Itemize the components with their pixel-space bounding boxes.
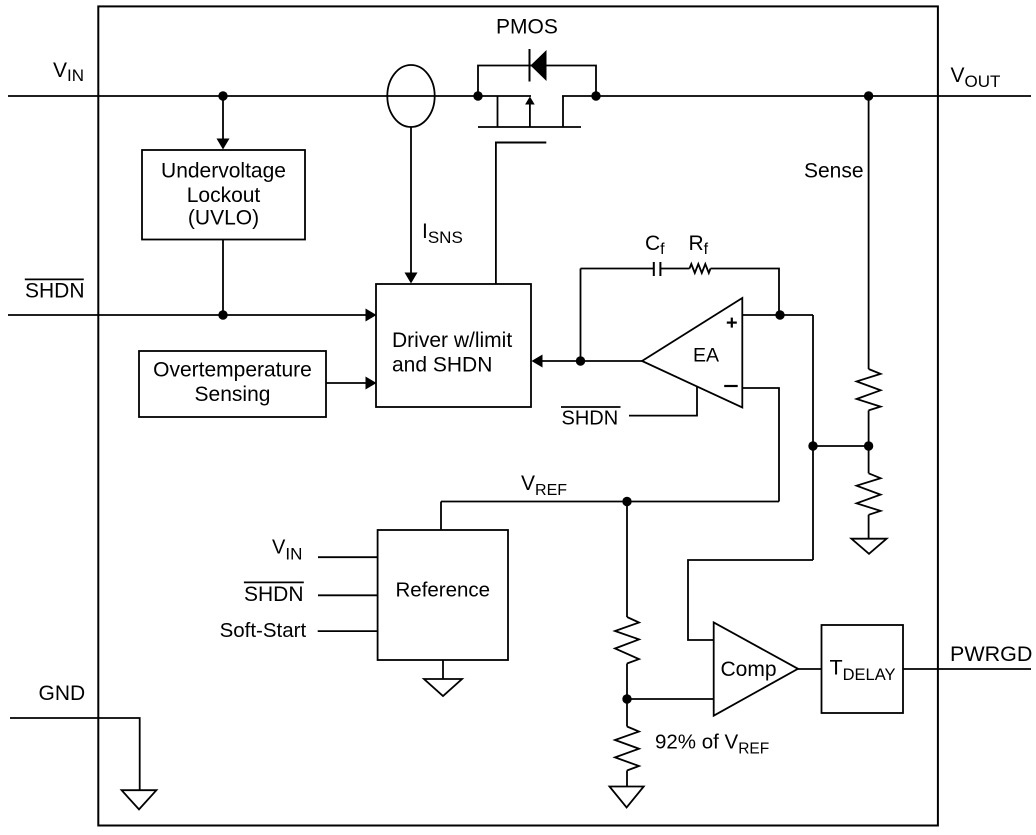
svg-text:(UVLO): (UVLO): [188, 207, 259, 230]
wire body-diode loop: [478, 66, 596, 97]
svg-text:Reference: Reference: [396, 579, 491, 602]
transistor PMOS gate plate: [495, 142, 546, 144]
wire R4 to ground: [626, 771, 628, 787]
svg-text:ISNS: ISNS: [422, 220, 463, 247]
comparator Comp triangle: [714, 622, 798, 715]
block Reference box: [378, 530, 508, 660]
node divider left junction: [808, 441, 817, 450]
wire reference SHDN input: [318, 594, 378, 596]
wire R1 to tap: [868, 410, 870, 446]
wire comp output: [798, 668, 822, 670]
diode D1 triangle: [531, 50, 547, 81]
node 92% tap junction: [622, 694, 631, 703]
diode cathode bar: [529, 49, 531, 82]
ground symbol below R4: [610, 787, 644, 808]
wire Rf to plus node: [711, 269, 780, 316]
op-amp EA minus sign: [724, 385, 738, 387]
block Overtemperature Sensing box: [139, 351, 326, 417]
resistor R2 sense lower: [857, 473, 881, 515]
svg-text:Comp: Comp: [721, 658, 777, 681]
svg-text:Undervoltage: Undervoltage: [161, 160, 286, 183]
svg-text:SHDN: SHDN: [244, 583, 304, 606]
wire UVLO to SHDN rail: [222, 240, 224, 316]
wire VREF to divider resistor: [626, 502, 628, 618]
text UVLO box: [161, 160, 286, 230]
svg-text:SHDN: SHDN: [25, 280, 85, 303]
svg-text:Lockout: Lockout: [187, 184, 261, 207]
svg-text:Sensing: Sensing: [195, 383, 271, 406]
svg-text:EA: EA: [693, 345, 719, 367]
wire comp lower input: [627, 698, 714, 700]
wire Cf to Rf: [660, 268, 689, 270]
wire EA minus input to VREF: [742, 388, 779, 502]
wire PWRGD output: [903, 668, 1031, 670]
svg-text:Driver w/limit: Driver w/limit: [392, 329, 512, 352]
overline for SHDN near EA: [561, 406, 621, 408]
wire reference VIN input: [318, 556, 378, 558]
wire GND pin: [10, 718, 140, 790]
wire VREF horizontal: [441, 501, 779, 503]
wire R2 to ground: [868, 515, 870, 539]
node sense divider tap junction: [864, 441, 873, 450]
wire VIN to UVLO arrow: [217, 96, 230, 150]
node plus input junction: [775, 310, 784, 319]
wire VIN rail left segment: [8, 95, 531, 97]
wire reference Soft-Start input: [318, 630, 378, 632]
node VOUT-Sense junction: [864, 91, 873, 100]
transistor PMOS bulk arrow: [525, 97, 535, 128]
wire plus node down to divider: [812, 315, 814, 560]
ground symbol GND pin: [122, 790, 157, 809]
svg-text:VIN: VIN: [53, 59, 84, 85]
svg-text:and SHDN: and SHDN: [392, 354, 492, 377]
transistor PMOS drain stub: [562, 96, 564, 127]
resistor R3 upper VREF divider: [615, 617, 639, 664]
wire tap to R2: [868, 446, 870, 473]
overline for reference SHDN input label: [244, 581, 304, 583]
transistor PMOS channel line: [478, 126, 581, 128]
wire feedback riser: [580, 269, 582, 362]
ground symbol below sense divider: [851, 539, 886, 554]
wire reference ground stub: [442, 660, 444, 679]
svg-text:Cf: Cf: [645, 232, 665, 258]
wire ISNS arrow into driver: [405, 127, 418, 284]
block TDELAY box: [822, 625, 904, 713]
wire VIN rail right segment to VOUT: [562, 95, 1031, 97]
ground symbol below reference: [424, 679, 462, 696]
wire SHDN rail with arrow into driver: [8, 309, 377, 322]
svg-text:Overtemperature: Overtemperature: [153, 358, 312, 381]
wire divider tap cross link: [813, 445, 869, 447]
capacitor Cf plates: [654, 262, 661, 276]
op-amp EA plus sign: [727, 318, 737, 328]
svg-text:Soft-Start: Soft-Start: [220, 619, 307, 642]
svg-text:PMOS: PMOS: [496, 16, 558, 39]
node PMOS drain junction: [591, 91, 600, 100]
resistor Rf zigzag: [690, 264, 711, 273]
svg-text:VOUT: VOUT: [951, 64, 1001, 91]
wire reference output stub: [440, 502, 442, 531]
text Overtemperature box: [153, 358, 312, 406]
overline for SHDN pin label: [25, 278, 84, 280]
svg-text:Sense: Sense: [804, 160, 864, 183]
node VIN-UVLO junction: [218, 91, 227, 100]
node SHDN-UVLO junction: [218, 310, 227, 319]
IC boundary box: [98, 6, 938, 825]
svg-text:PWRGD: PWRGD: [950, 642, 1032, 666]
current sense element (circle): [387, 65, 434, 127]
wire EA plus input: [742, 314, 813, 316]
svg-text:GND: GND: [39, 682, 86, 705]
wire tap to R4: [626, 699, 628, 727]
resistor R4 lower VREF divider: [615, 727, 639, 771]
node EA output / feedback junction: [576, 356, 585, 365]
wire PMOS gate to driver: [495, 143, 497, 285]
wire overtemp to driver arrow: [326, 377, 377, 390]
wire feedback top to Cf: [581, 268, 654, 270]
block UVLO box: [142, 150, 305, 240]
node PMOS source junction: [473, 91, 482, 100]
svg-text:VIN: VIN: [272, 537, 302, 564]
wire R3 to tap: [626, 664, 628, 700]
svg-text:Rf: Rf: [689, 232, 709, 258]
svg-text:92% of VREF: 92% of VREF: [655, 731, 769, 758]
wire comp upper input path: [688, 560, 813, 640]
node VREF divider junction: [622, 497, 631, 506]
svg-text:SHDN: SHDN: [562, 408, 619, 430]
wire EA output to driver arrow: [532, 355, 643, 368]
resistor R1 sense upper: [857, 369, 881, 410]
block Driver box: [376, 284, 531, 407]
svg-text:VREF: VREF: [521, 472, 567, 499]
svg-text:TDELAY: TDELAY: [830, 656, 896, 684]
wire SHDN to EA: [629, 387, 697, 416]
op-amp EA triangle: [642, 298, 742, 408]
transistor PMOS source stub: [497, 96, 499, 127]
wire sense line: [868, 96, 870, 369]
